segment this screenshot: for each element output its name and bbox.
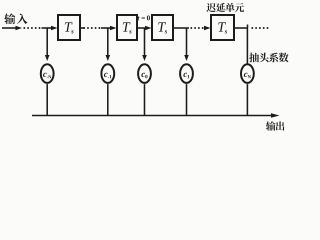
delay unit box T2 — [117, 15, 137, 40]
wire: dotted segment between T1 and T2 — [83, 27, 85, 29]
wire between T2 and T3: center tap junction — [137, 27, 148, 29]
wire: T4 output to tap cN — [234, 27, 248, 29]
wire from c-1 down to summing bus — [107, 84, 109, 116]
junction tick at tap cN — [247, 25, 249, 29]
multiplier circle c-1 — [101, 64, 114, 83]
wire into delay box T4 — [205, 27, 207, 29]
wire: dotted segment between tap c1 and T4 — [190, 27, 192, 29]
wire: input arrow — [2, 27, 17, 29]
tap wire down to coefficient cN — [247, 28, 249, 64]
wire from c0 down to summing bus — [144, 84, 146, 116]
multiplier circle c0 — [138, 64, 151, 83]
delay unit box T1 — [58, 15, 80, 40]
wire: dotted segment after input — [23, 27, 25, 29]
summing bus wire with output arrow — [32, 113, 280, 118]
tap wire down to coefficient c-1 — [106, 28, 111, 61]
label 迟延单元 (delay unit) — [206, 3, 244, 12]
wire into delay box T1 with tap junction — [42, 27, 53, 29]
wire: T3 output — [173, 27, 189, 29]
wire: trailing dotted segment — [251, 27, 253, 29]
multiplier circle cN — [241, 64, 254, 83]
wire from c1 down to summing bus — [186, 84, 188, 116]
tap wire down to coefficient c-N — [45, 28, 50, 61]
label 输入 (input) — [4, 13, 27, 24]
wire from cN down to summing bus — [247, 84, 249, 116]
delay unit box T4 — [211, 15, 234, 40]
tap wire down to coefficient c0 — [142, 28, 147, 61]
wire from c-N down to summing bus — [46, 84, 48, 116]
label t=0 (reference tap time) — [138, 16, 150, 21]
label 输出 (output) — [266, 121, 285, 130]
wire into delay box T2 with tap junction — [101, 27, 112, 29]
multiplier circle c-N — [41, 64, 54, 83]
tap wire down to coefficient c1 — [184, 28, 189, 61]
wire: T1 output stub — [80, 27, 84, 29]
multiplier circle c1 — [180, 64, 193, 83]
delay unit box T3 — [152, 15, 173, 40]
label 抽头系数 (tap coefficients) — [249, 53, 288, 63]
